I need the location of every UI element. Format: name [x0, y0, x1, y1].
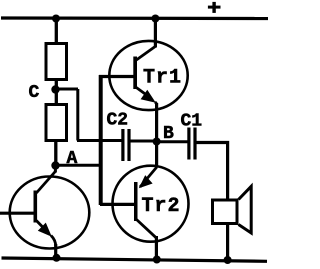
wire node C to R2 — [55, 91, 58, 104]
node B junction — [153, 138, 161, 146]
wire R1 to node C — [55, 80, 58, 91]
node junction rail / Q1 emitter — [53, 254, 61, 262]
capacitor C1 — [187, 128, 196, 160]
svg-text:C2: C2 — [107, 111, 129, 131]
capacitor C2 — [121, 129, 130, 161]
node C junction — [51, 85, 59, 93]
wire node C right — [55, 88, 78, 91]
wire speaker to bottom rail — [226, 223, 229, 260]
resistor R2 — [46, 105, 67, 141]
node junction on rail above Tr1 collector — [151, 15, 159, 23]
resistor R1 — [46, 44, 67, 80]
wire node A to base line — [55, 164, 102, 167]
wire horizontal to C2 — [77, 139, 122, 142]
wire down from node C branch — [76, 89, 79, 141]
svg-text:Tr1: Tr1 — [143, 67, 182, 90]
node junction on rail above R1 — [52, 15, 60, 23]
wire bottom rail — [2, 258, 268, 261]
wire Tr1 emitter to node B — [155, 103, 158, 167]
transistor Tr2 — [113, 166, 189, 260]
node junction rail / speaker — [224, 256, 232, 264]
speaker LS1 — [213, 186, 252, 233]
wire Tr2 base — [100, 203, 135, 206]
node junction rail / Tr2 — [153, 256, 161, 264]
wire Tr1 base — [99, 75, 136, 78]
node A junction — [51, 161, 59, 169]
transistor Q1 input stage — [0, 163, 89, 259]
wire top supply rail — [1, 16, 268, 20]
wire R2 to node A — [54, 141, 57, 166]
+ supply label — [208, 2, 221, 13]
wire C1 to speaker — [196, 143, 228, 201]
wire node B to C1 — [156, 140, 188, 143]
svg-text:C: C — [29, 83, 40, 103]
transistor Tr1 — [109, 18, 187, 110]
wire rail to R1 — [55, 18, 58, 43]
wire vertical base bus — [99, 75, 103, 205]
svg-text:C1: C1 — [181, 112, 203, 132]
svg-text:Tr2: Tr2 — [142, 195, 181, 218]
wire C2 to node B — [130, 140, 157, 143]
